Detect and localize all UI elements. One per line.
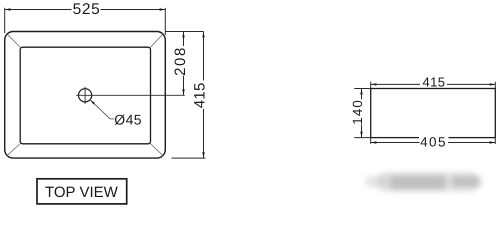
svg-text:525: 525 [73, 1, 101, 18]
svg-text:208: 208 [172, 46, 189, 76]
svg-text:140: 140 [350, 99, 365, 125]
svg-text:405: 405 [420, 134, 447, 149]
svg-text:TOP VIEW: TOP VIEW [45, 184, 119, 201]
svg-text:415: 415 [423, 74, 446, 89]
svg-text:415: 415 [192, 82, 209, 108]
svg-text:Ø45: Ø45 [114, 111, 142, 127]
